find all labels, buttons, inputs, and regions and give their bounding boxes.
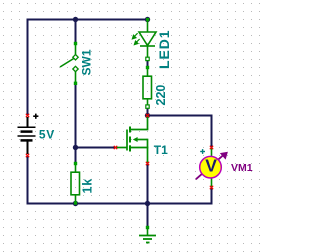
svg-text:5V: 5V [39,128,55,142]
node junction drain [145,113,150,118]
pin cross source [146,162,149,165]
LED LED1 [139,20,156,60]
pin cross battery bottom [26,154,29,157]
wire LED cathode to R1 [147,60,149,68]
svg-text:T1: T1 [154,143,168,157]
R2 pin square [74,162,77,165]
switch pin squares [74,42,77,45]
ground [139,226,156,243]
wire ground stem [147,204,149,228]
battery B1 [18,117,36,154]
LED arrow 2 [134,39,139,45]
T1 body arrow [133,137,138,142]
wire drain node to right [148,115,213,117]
wire switch bottom to gate node [75,84,77,148]
LED anode pin square on junction [146,18,149,21]
wire node to R2 top [75,148,77,164]
LED cathode pin square [146,57,149,60]
resistor R1 220 [143,68,152,108]
wire switch top [75,20,77,44]
pin cross voltmeter bottom [210,186,213,189]
resistor R2 1k [71,164,80,204]
node junction top LED [145,17,150,22]
wire left vertical lower [27,156,29,205]
transistor T1 MOSFET [116,116,149,164]
svg-text:LED1: LED1 [156,30,172,69]
svg-text:220: 220 [154,85,168,106]
LED arrow 1 [132,33,137,39]
switch pivot contact [73,55,78,60]
wire voltmeter bottom [211,188,213,205]
R2 bottom pin square on junction [74,202,77,205]
pin cross drain [146,114,149,117]
wire R1 bottom to drain node [147,108,149,116]
node junction ground [145,201,150,206]
svg-text:V: V [205,155,217,175]
svg-text:1k: 1k [81,178,95,194]
wire gate horizontal [76,147,116,149]
pin cross battery top [26,114,29,117]
VM1 pin stems [211,148,213,158]
battery plus sign [33,114,38,119]
wire right vertical to voltmeter [211,115,213,148]
R1 pin squares [146,66,149,69]
VM1 arrow [196,152,227,179]
node junction gate [73,145,78,150]
node junction top switch [73,17,78,22]
wire bottom horizontal [27,203,213,205]
svg-text:SW1: SW1 [80,49,94,75]
VM1 plus sign [200,149,205,154]
wire top horizontal [27,19,148,21]
node junction R2 bottom [73,201,78,206]
pin cross voltmeter top [210,146,213,149]
VM1 body circle [200,156,222,178]
wire left vertical upper [27,19,29,116]
svg-text:VM1: VM1 [231,162,253,174]
switch SW1 [60,44,76,84]
wire source to bottom [147,164,149,205]
pin cross gate [114,146,117,149]
switch lower contact [73,66,78,71]
